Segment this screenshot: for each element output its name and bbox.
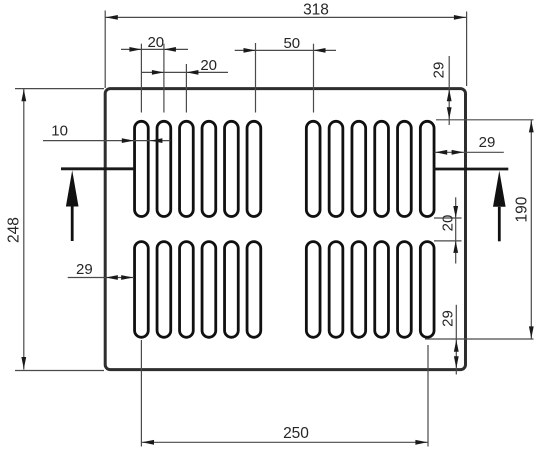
dimension 50 line bbox=[235, 49, 336, 51]
dimension 20 mid-right line bbox=[455, 197, 457, 263]
dimension 318 line bbox=[105, 16, 466, 18]
dimension 29 top-right arrows bbox=[447, 89, 452, 101]
dimension 190 arrows bbox=[529, 120, 534, 132]
dimension 250 extension line left bbox=[140, 340, 142, 447]
svg-text:250: 250 bbox=[283, 425, 309, 442]
slot top-left 6 bbox=[247, 121, 261, 216]
section line right bbox=[433, 168, 508, 171]
dimension 20 first extension lines bbox=[140, 44, 142, 113]
dimension 318 extension line left bbox=[104, 11, 106, 89]
flow arrow right bbox=[493, 171, 506, 207]
svg-text:20: 20 bbox=[439, 215, 456, 232]
dimension 50 extension lines bbox=[255, 43, 257, 113]
svg-text:50: 50 bbox=[283, 35, 300, 52]
slot top-left 1 bbox=[135, 121, 149, 216]
dimension 50 arrows bbox=[244, 48, 256, 53]
slot bottom-right 4 bbox=[375, 242, 389, 338]
dimension 318 arrow left bbox=[106, 15, 118, 20]
dimension 29 bottom-left arrows bbox=[106, 275, 118, 280]
svg-text:248: 248 bbox=[6, 217, 23, 243]
slot top-right 5 bbox=[398, 121, 412, 216]
svg-text:318: 318 bbox=[303, 1, 329, 18]
slot bottom-left 1 bbox=[135, 242, 149, 338]
svg-text:10: 10 bbox=[51, 123, 68, 140]
dimension 20 mid-right arrows bbox=[453, 206, 458, 218]
slot bottom-left 3 bbox=[180, 242, 194, 338]
slot bottom-left 2 bbox=[157, 242, 171, 338]
svg-text:29: 29 bbox=[76, 261, 93, 278]
svg-text:29: 29 bbox=[430, 62, 447, 79]
svg-text:20: 20 bbox=[147, 34, 164, 51]
slot bottom-left 5 bbox=[225, 242, 239, 338]
slot top-right 2 bbox=[329, 121, 343, 216]
plate outline bbox=[105, 89, 465, 370]
dimension 29 bottom-right line bbox=[455, 305, 457, 375]
slot bottom-right 1 bbox=[306, 242, 320, 338]
slot top-left 4 bbox=[202, 121, 216, 216]
dimension 29 bottom-left line bbox=[68, 277, 134, 279]
dimension 248 arrows bbox=[21, 89, 26, 101]
dimension 318 arrow right bbox=[454, 15, 466, 20]
slot top-right 1 bbox=[306, 121, 320, 216]
slot top-left 2 bbox=[157, 121, 171, 216]
dimension 20 second extension line bbox=[185, 64, 187, 113]
slot bottom-left 4 bbox=[202, 242, 216, 338]
svg-text:29: 29 bbox=[439, 310, 456, 327]
svg-text:20: 20 bbox=[200, 57, 217, 74]
slot top-left 3 bbox=[180, 121, 194, 216]
dimension 10 arrows bbox=[122, 138, 134, 143]
dimension 29 bottom-right arrows bbox=[454, 340, 459, 352]
dimension 190 line bbox=[530, 120, 532, 339]
flow arrow left bbox=[66, 170, 79, 206]
slot bottom-left 6 bbox=[247, 242, 261, 338]
slot top-right 3 bbox=[352, 121, 366, 216]
slot top-right 4 bbox=[375, 121, 389, 216]
dimension 29 mid-right line bbox=[435, 151, 504, 153]
slot bottom-right 6 bbox=[420, 242, 434, 338]
dimension 250 extension line right bbox=[427, 345, 429, 447]
slot bottom-right 3 bbox=[352, 242, 366, 338]
dimension 20 first arrows bbox=[129, 47, 141, 52]
dimension 20 second line bbox=[142, 71, 228, 73]
dimension 250 line bbox=[141, 441, 428, 443]
svg-text:29: 29 bbox=[479, 134, 496, 151]
dimension 29 top-right line bbox=[448, 56, 450, 125]
dimension 10 line bbox=[43, 140, 170, 142]
svg-text:190: 190 bbox=[513, 196, 530, 222]
dimension 318 extension line right bbox=[466, 12, 468, 87]
slot top-left 5 bbox=[225, 121, 239, 216]
slot top-right 6 bbox=[420, 121, 434, 216]
slot row gap extension lines right bbox=[434, 217, 462, 219]
dimension 250 arrows bbox=[142, 440, 154, 445]
slot bottom-right 2 bbox=[329, 242, 343, 338]
section line left bbox=[61, 167, 134, 170]
dimension 248 extension line top bbox=[15, 88, 104, 90]
slot bottom extension line right bbox=[425, 338, 534, 340]
dimension 29 mid-right arrows bbox=[435, 150, 447, 155]
slot bottom-right 5 bbox=[398, 242, 412, 338]
dimension 20 second arrows bbox=[152, 70, 164, 75]
dimension 248 line bbox=[23, 89, 25, 370]
dimension 248 extension line bottom bbox=[15, 370, 104, 372]
dimension 20 first line bbox=[121, 48, 188, 50]
slot top extension line right bbox=[436, 119, 534, 121]
